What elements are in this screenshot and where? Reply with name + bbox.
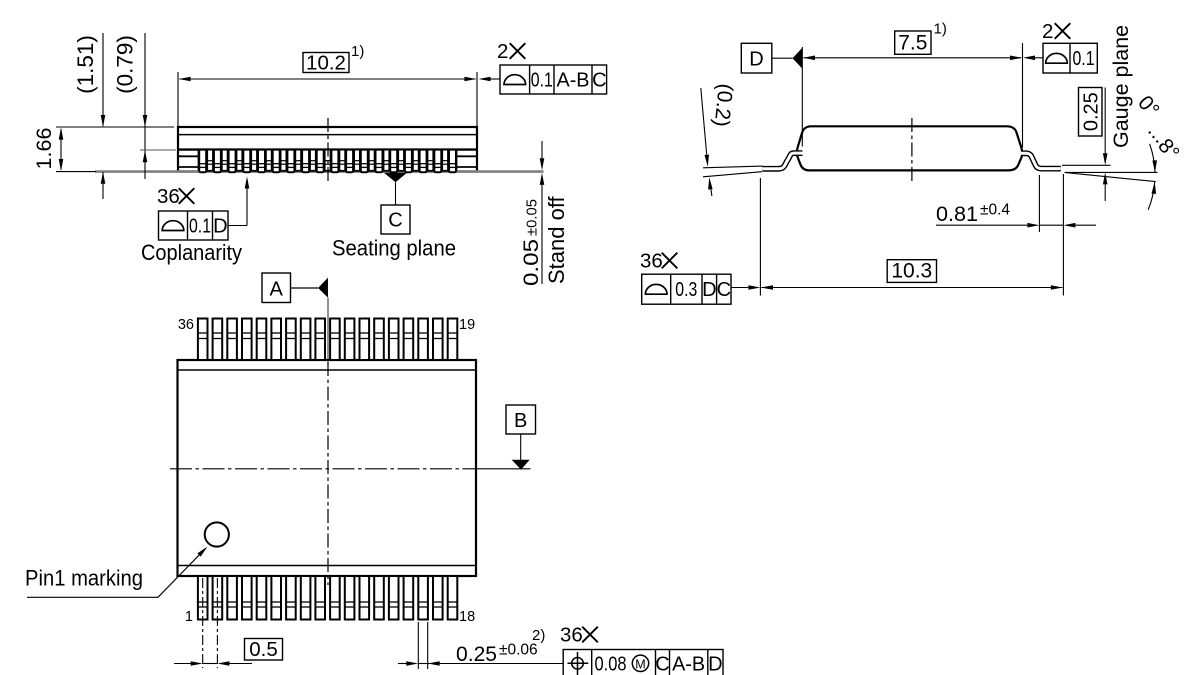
end view centerline bbox=[911, 118, 913, 184]
svg-text:D: D bbox=[749, 49, 763, 71]
svg-text:0.1: 0.1 bbox=[1073, 48, 1095, 70]
svg-text:M: M bbox=[635, 658, 645, 672]
svg-text:0.3: 0.3 bbox=[675, 279, 697, 301]
dimension 10.3 bbox=[760, 178, 1062, 296]
dimension 1.66 bbox=[32, 128, 63, 171]
svg-text:10.2: 10.2 bbox=[306, 52, 346, 75]
tolerance frame 36x profile 0.3 D C bbox=[640, 250, 760, 305]
svg-text:D: D bbox=[213, 216, 227, 238]
dimension 0.25 gauge plane bbox=[1079, 25, 1134, 201]
svg-text:1.66: 1.66 bbox=[32, 128, 56, 170]
lead angle line bbox=[1066, 173, 1156, 182]
svg-text:18: 18 bbox=[459, 609, 475, 625]
dimension 0.5 pitch bbox=[174, 638, 283, 666]
svg-text:7.5: 7.5 bbox=[898, 32, 927, 55]
plan view vertical centerline bbox=[327, 362, 329, 585]
svg-text:(0.79): (0.79) bbox=[113, 35, 138, 94]
tolerance frame 2x profile 0.1 A-B C bbox=[479, 40, 607, 94]
pin 1 and 2 centerlines bbox=[202, 578, 204, 668]
side view leads 36x bbox=[199, 150, 456, 173]
svg-text:(0.2): (0.2) bbox=[710, 82, 737, 127]
tolerance frame 36x position 0.08 M C A-B D bbox=[560, 624, 723, 675]
svg-text:A: A bbox=[270, 279, 284, 301]
dimension 7.5 with datum D bbox=[741, 21, 1022, 148]
svg-text:A-B: A-B bbox=[672, 654, 705, 675]
lead tip tolerance lines left bbox=[703, 166, 763, 168]
svg-text:±0.05: ±0.05 bbox=[524, 199, 541, 236]
plan view bottom pins 1-18 bbox=[198, 576, 457, 620]
svg-text:0.25: 0.25 bbox=[456, 642, 497, 666]
pin 1 marking circle bbox=[205, 522, 229, 546]
svg-text:±0.4: ±0.4 bbox=[980, 202, 1010, 219]
svg-text:±0.06: ±0.06 bbox=[499, 642, 538, 659]
extension line body top bbox=[56, 126, 174, 128]
svg-text:2: 2 bbox=[497, 40, 508, 63]
svg-text:C: C bbox=[655, 654, 669, 675]
svg-text:19: 19 bbox=[459, 317, 475, 333]
svg-text:(1.51): (1.51) bbox=[73, 35, 98, 94]
svg-text:Gauge plane: Gauge plane bbox=[1109, 25, 1133, 148]
svg-text:1): 1) bbox=[351, 43, 364, 60]
svg-text:2): 2) bbox=[532, 627, 545, 644]
extension line seating bbox=[56, 171, 96, 173]
svg-text:C: C bbox=[388, 210, 402, 232]
pin1 marking label and leader bbox=[25, 547, 208, 598]
svg-text:B: B bbox=[514, 410, 527, 432]
dimension 0.81 bbox=[936, 174, 1096, 296]
svg-text:Pin1 marking: Pin1 marking bbox=[25, 566, 143, 591]
side view package body bbox=[178, 127, 477, 172]
tolerance frame 2x profile 0.1 right bbox=[1023, 20, 1097, 73]
svg-text:0.08: 0.08 bbox=[595, 654, 627, 675]
svg-text:Coplanarity: Coplanarity bbox=[141, 240, 242, 265]
side view centerline bbox=[327, 118, 329, 184]
svg-text:10.3: 10.3 bbox=[891, 260, 932, 283]
dimension 10.2 bbox=[178, 43, 477, 126]
datum B bbox=[506, 405, 536, 470]
angle dimension 0 to 8 degrees bbox=[1133, 91, 1184, 209]
datum A bbox=[262, 273, 328, 303]
svg-text:C: C bbox=[717, 279, 731, 301]
svg-text:Seating plane: Seating plane bbox=[332, 236, 456, 261]
svg-text:0.05: 0.05 bbox=[520, 239, 543, 286]
dimension (0.2) bbox=[701, 82, 737, 196]
dimension 0.25 lead width bbox=[398, 622, 563, 669]
tolerance frame 36x coplanarity 0.1 D bbox=[141, 177, 249, 266]
svg-text:0.25: 0.25 bbox=[1081, 92, 1103, 131]
svg-text:C: C bbox=[592, 70, 606, 92]
svg-text:36: 36 bbox=[157, 185, 180, 208]
svg-text:1: 1 bbox=[185, 609, 193, 625]
datum A leader line bbox=[327, 298, 329, 362]
end view package body bbox=[797, 126, 1022, 170]
svg-text:36: 36 bbox=[640, 250, 663, 273]
plan view horizontal centerline bbox=[170, 468, 476, 470]
plan view package body bbox=[178, 360, 477, 576]
svg-text:1): 1) bbox=[934, 21, 947, 38]
svg-text:2: 2 bbox=[1042, 20, 1053, 43]
dimension 0.05 stand off bbox=[520, 141, 569, 286]
svg-text:D: D bbox=[702, 279, 716, 301]
seating extension line right bbox=[1065, 171, 1158, 173]
svg-text:36: 36 bbox=[560, 624, 583, 647]
dimension (0.79) bbox=[113, 33, 177, 179]
svg-text:36: 36 bbox=[178, 317, 194, 333]
svg-text:0.5: 0.5 bbox=[249, 638, 278, 661]
svg-text:0.81: 0.81 bbox=[936, 202, 978, 226]
svg-text:A-B: A-B bbox=[557, 70, 590, 92]
svg-text:Stand off: Stand off bbox=[544, 195, 569, 284]
plan view top pins 36-19 bbox=[198, 319, 457, 361]
svg-text:0.1: 0.1 bbox=[189, 216, 211, 238]
datum C seating plane bbox=[332, 173, 456, 261]
end view right lead bbox=[1021, 153, 1061, 168]
dimension (1.51) bbox=[73, 33, 105, 199]
svg-text:D: D bbox=[708, 654, 722, 675]
end view left lead bbox=[762, 153, 802, 169]
seating plane line bbox=[95, 170, 544, 173]
svg-text:0.1: 0.1 bbox=[531, 70, 553, 92]
gauge plane line bbox=[1062, 164, 1111, 166]
